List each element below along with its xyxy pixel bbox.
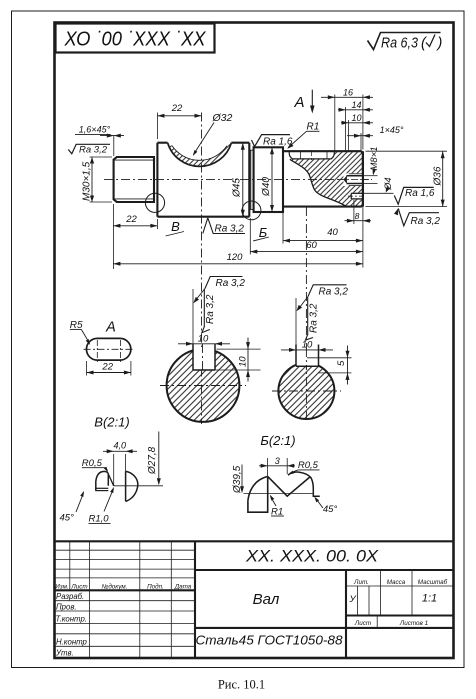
- detail B left block: [248, 476, 268, 512]
- centerline overlay left slot: [202, 344, 204, 374]
- svg-text:10: 10: [237, 356, 248, 367]
- neck groove B between d45 and d40: [250, 150, 252, 209]
- roughness Ra 3,2 section left horizontal: [205, 277, 243, 289]
- keyway slot top view stadium: [86, 338, 130, 360]
- svg-text:1:1: 1:1: [422, 593, 437, 605]
- svg-text:Ra 3,2: Ra 3,2: [309, 303, 320, 333]
- svg-text:Н.контр: Н.контр: [56, 638, 88, 647]
- d40 section outline: [254, 147, 283, 212]
- thread section M30 outline: [114, 157, 154, 202]
- svg-text:ХХ. ХХХ. 00. 0Х: ХХ. ХХХ. 00. 0Х: [245, 548, 379, 566]
- svg-text:Ø36: Ø36: [433, 166, 444, 186]
- svg-text:Вал: Вал: [253, 591, 280, 608]
- svg-text:В: В: [171, 219, 180, 234]
- svg-text:Ra 3,2: Ra 3,2: [319, 286, 349, 297]
- svg-text:Изм.: Изм.: [55, 583, 68, 590]
- main centerline: [104, 179, 372, 181]
- svg-text:Рис. 10.1: Рис. 10.1: [218, 678, 265, 692]
- svg-text:14: 14: [351, 100, 361, 110]
- svg-text:Пров.: Пров.: [56, 603, 77, 612]
- svg-text:В(2:1): В(2:1): [94, 415, 129, 430]
- dimension d36: [442, 151, 444, 206]
- right end hatched area: [290, 151, 363, 206]
- svg-text:У: У: [348, 594, 356, 605]
- svg-text:1,6×45°: 1,6×45°: [79, 124, 111, 134]
- groove crescent hatched section: [168, 143, 232, 167]
- svg-text:Листов 1: Листов 1: [399, 620, 428, 627]
- callout circle B: [242, 201, 261, 220]
- svg-text:120: 120: [227, 252, 244, 263]
- svg-text:5: 5: [336, 360, 347, 366]
- svg-text:Ra 1,6: Ra 1,6: [405, 188, 435, 199]
- dimension 10 keyway depth: [217, 348, 261, 350]
- svg-text:Подп.: Подп.: [147, 582, 164, 590]
- svg-text:Ø45: Ø45: [232, 178, 243, 198]
- svg-text:Утв.: Утв.: [55, 648, 74, 657]
- svg-text:Ra 1,6: Ra 1,6: [263, 136, 293, 147]
- svg-text:22: 22: [101, 362, 113, 373]
- svg-text:R0,5: R0,5: [298, 460, 319, 471]
- detail B chamfer lobe: [288, 472, 320, 496]
- svg-text:Ra 6,3: Ra 6,3: [381, 36, 418, 52]
- keyway slot right section: [295, 345, 297, 367]
- svg-text:Ø40: Ø40: [261, 177, 272, 197]
- svg-text:Дата: Дата: [174, 583, 192, 590]
- callout circle V: [145, 193, 164, 212]
- roughness Ra 3,2 section right horizontal: [308, 285, 347, 297]
- detail V right lobe: [126, 471, 138, 501]
- svg-text:4,0: 4,0: [113, 441, 126, 451]
- stadium centerline horizontal: [84, 348, 135, 350]
- svg-text:ХО ˙00 ˙ХХХ ˙ХХ: ХО ˙00 ˙ХХХ ˙ХХ: [64, 29, 207, 51]
- svg-text:Ø27,8: Ø27,8: [147, 446, 158, 475]
- roughness Ra 3,2 top-left: [68, 144, 110, 154]
- svg-text:10: 10: [351, 113, 361, 123]
- svg-text:1×45°: 1×45°: [380, 125, 404, 135]
- d4 hole: [350, 193, 363, 200]
- svg-text:Сталь45 ГОСТ1050-88: Сталь45 ГОСТ1050-88: [196, 633, 343, 647]
- dimension 5 keyway depth: [307, 357, 352, 359]
- svg-text:А: А: [105, 320, 116, 336]
- keyway slot left section: [192, 344, 194, 371]
- svg-text:45°: 45°: [60, 513, 75, 524]
- designation box top-left: [56, 24, 215, 53]
- dimension d40: [271, 147, 273, 212]
- detail B fillet: [248, 476, 268, 500]
- section centerline horizontal: [160, 385, 246, 387]
- section right centerline horizontal: [272, 390, 341, 392]
- svg-text:Ra 3,2: Ra 3,2: [216, 278, 246, 289]
- lit massa masshtab columns: [380, 570, 382, 616]
- svg-text:16: 16: [343, 87, 353, 97]
- svg-text:А: А: [293, 94, 304, 111]
- svg-text:R0,5: R0,5: [82, 458, 103, 469]
- svg-text:M8×1: M8×1: [369, 146, 380, 170]
- svg-text:№докум.: №докум.: [102, 582, 128, 590]
- roughness Ra 3,2 section left vertical: [202, 289, 210, 333]
- stadium arc centerlines: [96, 340, 98, 363]
- svg-text:Разраб.: Разраб.: [56, 592, 84, 601]
- right end section body: [283, 151, 363, 206]
- svg-text:Ra 3,2: Ra 3,2: [205, 294, 216, 324]
- M8 threaded hole: [343, 173, 363, 186]
- detail B groove V: [268, 476, 311, 496]
- keyway slot in section: [289, 151, 334, 159]
- roughness Ra 1,6 right: [394, 187, 433, 204]
- svg-text:Ra 3,2: Ra 3,2: [79, 145, 108, 156]
- section circle right: [278, 363, 334, 419]
- centerline overlay right slot: [305, 348, 307, 370]
- svg-text:40: 40: [327, 227, 338, 238]
- right end face: [362, 151, 364, 206]
- d45 section outline: [157, 142, 167, 144]
- dimension d45: [242, 143, 244, 217]
- detail V left hump: [96, 471, 109, 490]
- svg-text:8: 8: [355, 211, 360, 221]
- roughness Ra 3,2 section right vertical: [305, 298, 313, 341]
- title block outer lines: [55, 540, 454, 542]
- slot extension dashes: [300, 152, 302, 159]
- keyway runout curve: [290, 159, 347, 206]
- title block left table rows: [55, 549, 196, 551]
- thread minor diameter lines: [115, 159, 155, 161]
- svg-text:22: 22: [125, 214, 137, 225]
- roughness Ra 1,6 mid: [252, 135, 291, 147]
- svg-text:M30×1,5: M30×1,5: [82, 161, 93, 201]
- svg-text:22: 22: [171, 103, 183, 114]
- roughness Ra 3,2 right: [394, 208, 398, 215]
- extension lines right end dims: [334, 95, 336, 151]
- groove axis centerline: [201, 113, 203, 425]
- svg-text:Т.контр.: Т.контр.: [56, 615, 87, 624]
- svg-text:Ø32: Ø32: [212, 112, 233, 124]
- section circle left: [167, 349, 240, 422]
- svg-text:45°: 45°: [323, 504, 338, 515]
- svg-text:Лист: Лист: [354, 620, 371, 627]
- keyway axis centerline to section: [305, 207, 307, 422]
- svg-text:60: 60: [306, 240, 317, 251]
- roughness Ra 3,2 under d45: [203, 218, 245, 234]
- svg-text:3: 3: [275, 456, 280, 466]
- svg-text:10: 10: [198, 333, 209, 344]
- svg-text:Ra 3,2: Ra 3,2: [215, 224, 245, 235]
- svg-text:Лист: Лист: [70, 583, 87, 590]
- svg-text:Ra 3,2: Ra 3,2: [411, 216, 441, 227]
- svg-text:10: 10: [302, 339, 313, 350]
- detail V thread flank: [108, 474, 113, 486]
- svg-text:Масса: Масса: [387, 579, 406, 586]
- svg-text:): ): [436, 36, 443, 52]
- svg-text:Лит.: Лит.: [353, 579, 369, 586]
- ball-mill groove arc d32: [168, 143, 232, 167]
- svg-text:R1,0: R1,0: [89, 514, 110, 525]
- drawing frame: [55, 23, 454, 659]
- svg-text:Масштаб: Масштаб: [418, 578, 448, 586]
- general roughness symbol Ra 6,3: [368, 33, 441, 50]
- groove bottom line detail V: [114, 485, 163, 487]
- title block left table columns: [69, 541, 71, 590]
- shaft step d45 left face: [156, 143, 158, 217]
- svg-text:Б(2:1): Б(2:1): [260, 433, 295, 448]
